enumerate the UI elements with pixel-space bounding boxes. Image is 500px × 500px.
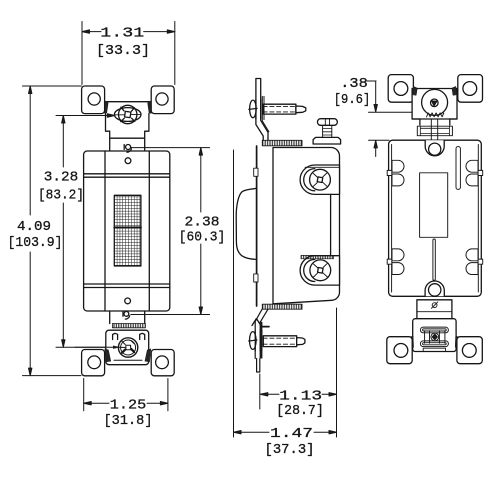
front top-right ear hole — [156, 93, 168, 105]
dimension 3.28 [83.2] screw-to-screw height front view — [38, 114, 121, 349]
back housing step — [412, 119, 457, 125]
back central slot — [433, 239, 435, 280]
svg-text:[28.7]: [28.7] — [276, 403, 324, 419]
side upper screw washer strip — [262, 96, 269, 131]
back lock washer teeth — [427, 113, 444, 117]
dimension 2.38 [60.3] hole-to-hole height front view — [131, 148, 225, 315]
front bottom-left mounting ear — [82, 350, 105, 376]
back pivot center hole — [431, 99, 439, 107]
front strap column and neck — [106, 114, 149, 152]
svg-text:[33.3]: [33.3] — [96, 43, 150, 59]
front bracket right hook tab — [140, 333, 145, 339]
svg-text:2.38: 2.38 — [185, 214, 220, 230]
side strap lower arm — [255, 309, 268, 372]
front top-left ear hole — [88, 93, 100, 105]
side strap upper flange hatched — [262, 140, 302, 146]
dimension 1.13 [28.7] body depth side view — [260, 374, 337, 419]
front 3.28 leader to bottom screw — [75, 346, 126, 349]
side strap lower arm thick bar — [260, 322, 263, 359]
side strap upper arm over screw head — [256, 100, 261, 120]
front strap hub plate top edge — [106, 101, 150, 103]
side strap lower arm over screw head — [254, 331, 256, 352]
svg-text:[9.6]: [9.6] — [334, 92, 371, 108]
dimension 4.09 [103.9] overall height front view — [8, 86, 82, 376]
svg-text:1.25: 1.25 — [110, 397, 147, 413]
side upper terminal boss — [300, 165, 339, 194]
side mounting strap front edge — [256, 146, 258, 306]
front body outline — [84, 151, 170, 311]
front top-left mounting ear — [82, 86, 105, 114]
side strap lower widened tab — [254, 274, 258, 282]
dimension .38 [9.6] strap offset back view — [334, 76, 415, 157]
back bottom-left hatched gusset — [409, 336, 414, 347]
front top-right mounting ear — [151, 86, 174, 114]
front lower wiring hole symbol — [123, 312, 130, 320]
back bottom bracket — [413, 319, 456, 352]
back top-left mounting ear — [388, 75, 413, 103]
back upper-left clip tabs — [387, 160, 404, 186]
back bracket wire slot upper bar — [420, 327, 448, 333]
side upper 6-32 mounting screw — [249, 100, 306, 118]
back upper-right clip tabs — [466, 160, 483, 186]
front body raised center left edge — [104, 151, 106, 311]
side lower terminal screw — [310, 260, 331, 281]
svg-text:1.31: 1.31 — [100, 25, 144, 41]
svg-text:[60.3]: [60.3] — [179, 229, 226, 245]
back hub right hatched gusset — [452, 86, 457, 95]
front toggle middle edge — [114, 227, 141, 229]
back lower-right clip tabs — [466, 249, 483, 275]
back bottom strap hanger tab — [425, 281, 444, 296]
svg-text:1.47: 1.47 — [270, 426, 313, 442]
front top mounting screw 6-32 — [114, 105, 141, 123]
back bracket slot verticals — [425, 331, 445, 344]
front upper wiring hole symbol — [124, 145, 131, 153]
front body lower parting lines — [84, 284, 170, 288]
front bottom-left ear hole — [88, 356, 101, 369]
front bottom-right mounting ear — [151, 350, 174, 376]
svg-text:[103.9]: [103.9] — [8, 235, 63, 251]
back bracket foot line — [423, 348, 445, 351]
front bottom mounting screw head — [118, 338, 137, 357]
svg-text:4.09: 4.09 — [17, 219, 51, 235]
front bottom neck — [110, 311, 145, 324]
side strap upper widened tab — [254, 168, 258, 176]
dimension 1.31 [33.3] top width front view — [82, 22, 175, 85]
svg-text:[83.2]: [83.2] — [38, 188, 84, 204]
back neck parting line — [417, 311, 452, 313]
front bottom-right ear hole — [156, 356, 169, 369]
front toggle lever crosshatched — [114, 195, 141, 266]
side lower terminal boss — [300, 255, 339, 285]
front bottom strap bracket — [106, 330, 149, 365]
back top-right ear hole — [463, 82, 477, 96]
front hub left hatched gusset — [105, 101, 108, 114]
back top-right mounting ear — [458, 75, 483, 103]
front bottom-right hatched gusset — [145, 349, 151, 362]
back bottom-right mounting ear — [457, 337, 482, 364]
back screw shank to body — [431, 119, 437, 140]
back neck screw hole symbol — [431, 302, 437, 308]
back bottom neck — [417, 300, 452, 319]
back top hanger hole — [429, 143, 441, 155]
front upper small hole — [125, 158, 131, 164]
side body edge between bosses — [330, 194, 332, 255]
back central rectangular recess — [420, 173, 448, 238]
side toggle lever bump — [236, 188, 256, 259]
side lower 6-32 mounting screw — [249, 332, 305, 350]
front bottom strap edge hatched — [112, 324, 145, 328]
back bottom-right ear hole — [462, 344, 476, 358]
back bracket center hole — [431, 333, 439, 341]
side strap lower flange hatched — [262, 304, 302, 309]
dimension 1.25 [31.8] bottom width front view — [84, 379, 168, 430]
svg-text:.38: .38 — [340, 76, 368, 92]
back bottom-left ear hole — [394, 344, 408, 358]
side strap lower break-off notch — [252, 319, 261, 326]
back crimp washer — [417, 126, 452, 136]
svg-text:[37.3]: [37.3] — [265, 442, 315, 458]
front body raised center right edge — [148, 151, 150, 311]
front bottom-left hatched gusset — [105, 349, 111, 362]
svg-text:[31.8]: [31.8] — [104, 413, 153, 429]
back bottom-left mounting ear — [387, 337, 412, 364]
front body upper parting lines — [84, 174, 170, 177]
front hub right hatched gusset — [148, 101, 151, 114]
front bracket left hook tab — [113, 333, 118, 339]
back body inner edges — [392, 145, 479, 293]
side strap upper arm — [256, 79, 268, 141]
front bracket inner bottom line — [114, 359, 142, 361]
back bottom hanger hole — [429, 284, 441, 296]
back top-left ear hole — [394, 82, 408, 96]
back hub left hatched gusset — [412, 86, 417, 95]
back body outline — [389, 140, 482, 296]
back bottom-right hatched gusset — [455, 336, 460, 347]
back strap hub housing — [412, 89, 457, 120]
side upper terminal screw — [310, 169, 331, 190]
back top-right slot — [456, 147, 460, 190]
side body outline — [273, 148, 340, 304]
back lower-left clip tabs — [387, 249, 404, 275]
side upper terminal screw on top — [313, 119, 341, 144]
back bracket wire slot lower bar — [420, 341, 448, 347]
svg-text:3.28: 3.28 — [44, 169, 79, 185]
dimension 1.47 [37.3] overall depth side view — [234, 150, 337, 458]
back pivot hub — [422, 89, 448, 115]
back top strap hanger tab — [425, 140, 444, 156]
front lower small hole — [125, 298, 131, 304]
